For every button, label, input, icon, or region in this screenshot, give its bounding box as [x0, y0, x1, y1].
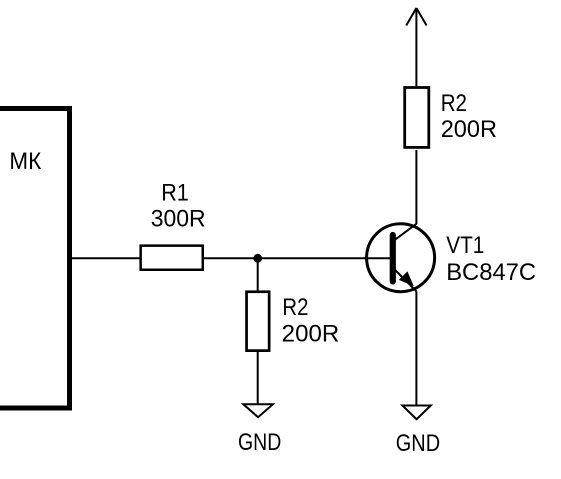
svg-text:МК: МК — [9, 148, 41, 175]
wire collector to R2 top — [415, 150, 417, 224]
transistor VT1 base bar — [390, 235, 396, 281]
svg-text:R2: R2 — [282, 294, 308, 321]
svg-text:R2: R2 — [441, 90, 467, 117]
MCU box МК — [0, 109, 70, 409]
ground (right) — [402, 406, 430, 420]
wire R1 to base — [203, 257, 391, 259]
resistor R2 (pull-down) — [247, 292, 270, 351]
svg-text:VT1: VT1 — [446, 232, 484, 259]
svg-text:200R: 200R — [282, 321, 340, 348]
svg-text:300R: 300R — [151, 205, 206, 232]
wire node to R2 — [257, 257, 259, 292]
wire emitter to ground — [415, 291, 417, 405]
transistor emitter arrow — [399, 271, 414, 286]
node junction dot — [253, 254, 262, 263]
wire R2 to ground — [257, 351, 259, 405]
svg-text:BC847C: BC847C — [446, 259, 536, 286]
transistor emitter diagonal — [396, 270, 417, 291]
svg-text:GND: GND — [396, 430, 440, 457]
resistor R2 (collector) — [405, 88, 429, 148]
transistor collector diagonal — [395, 224, 417, 240]
ground (left) — [243, 404, 273, 417]
supply arrow — [406, 8, 416, 26]
transistor VT1 body — [367, 224, 435, 292]
svg-text:GND: GND — [238, 429, 281, 456]
svg-text:200R: 200R — [441, 116, 497, 143]
resistor R1 — [141, 246, 203, 270]
wire R2 to supply — [415, 8, 417, 88]
svg-text:R1: R1 — [161, 180, 189, 207]
wire MCU to R1 — [70, 257, 141, 259]
